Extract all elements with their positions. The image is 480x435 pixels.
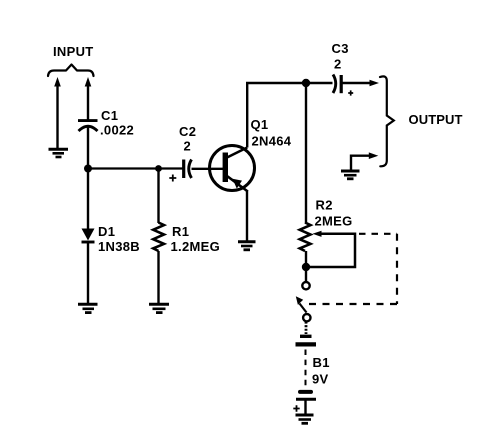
wire C1 to node A [87, 127, 89, 169]
battery B1 top cell [296, 336, 317, 344]
wire battery to ground [304, 399, 306, 414]
svg-text:2: 2 [334, 57, 341, 72]
output top arrow [370, 80, 380, 87]
wire Q1 emitter down [246, 191, 248, 241]
ground (input) [49, 149, 69, 157]
svg-text:2N464: 2N464 [252, 134, 292, 149]
svg-text:9V: 9V [312, 372, 329, 387]
wire node B to R1 [157, 169, 159, 224]
input brace (overbrace) [48, 65, 94, 77]
svg-text:R2: R2 [316, 198, 333, 213]
wire node C to C3 [306, 82, 333, 84]
svg-text:2: 2 [184, 139, 191, 154]
svg-text:D1: D1 [98, 224, 115, 239]
svg-text:C1: C1 [101, 108, 118, 123]
input left terminal arrow [54, 77, 61, 87]
dashed gang link horizontal to switch [307, 303, 397, 305]
wire R1 to ground [157, 251, 159, 304]
wire node C to R2 [305, 83, 307, 223]
wire wiper loop [308, 234, 355, 267]
svg-text:R1: R1 [172, 224, 189, 239]
C3 plus sign [348, 90, 353, 95]
wire Q1 collector up [247, 83, 306, 148]
capacitor C2 [184, 160, 192, 179]
svg-text:2MEG: 2MEG [315, 214, 353, 229]
wire R2 to node D [305, 251, 307, 267]
ground (Q1 emitter) [238, 242, 256, 250]
ground (D1) [78, 304, 98, 312]
node A junction dot [84, 165, 92, 173]
wire C2 to Q1 base [192, 168, 224, 170]
wire input right terminal to C1 [87, 84, 89, 120]
diode D1 [82, 229, 95, 243]
wire node A to C2 [88, 167, 183, 169]
capacitor C3 [333, 75, 341, 94]
svg-text:B1: B1 [313, 355, 330, 370]
svg-text:OUTPUT: OUTPUT [409, 112, 463, 127]
battery B1 dashed middle [305, 350, 307, 389]
dashed gang link horizontal from wiper [359, 233, 397, 235]
svg-text:1N38B: 1N38B [98, 239, 140, 254]
transistor Q1 [210, 146, 255, 192]
dashed gang link vertical [396, 234, 398, 304]
C2 plus sign [169, 175, 176, 182]
node C junction dot [302, 79, 310, 87]
R2 wiper arrow [313, 231, 322, 237]
ground (R1) [149, 304, 169, 312]
svg-text:.0022: .0022 [100, 123, 134, 138]
wire output ground arm [351, 156, 371, 170]
battery plus sign [293, 405, 299, 411]
battery B1 bottom cell [296, 392, 316, 399]
wire switch to battery (textured) [305, 322, 308, 335]
capacitor C1 [78, 121, 98, 131]
wire C3 to output arrow [341, 82, 371, 84]
output brace [380, 76, 394, 166]
ground (battery) [296, 415, 314, 423]
svg-text:1.2MEG: 1.2MEG [171, 239, 220, 254]
switch S1 lower contact [303, 314, 310, 321]
switch S1 blade [300, 304, 307, 313]
node D junction dot [302, 263, 310, 271]
wire node D to switch [305, 267, 307, 282]
resistor R1 [153, 223, 164, 252]
switch S1 upper contact [302, 282, 309, 289]
svg-text:C2: C2 [179, 124, 196, 139]
svg-text:C3: C3 [332, 41, 349, 56]
input right terminal arrow [85, 77, 92, 87]
wire node A to D1 [87, 169, 89, 230]
wire D1 to ground [87, 243, 89, 304]
resistor R2 (rheostat) [300, 223, 311, 252]
node B junction dot [155, 165, 162, 172]
svg-text:Q1: Q1 [251, 117, 269, 132]
svg-text:INPUT: INPUT [53, 44, 94, 59]
switch S1 blade arrow [296, 296, 303, 305]
wire input left terminal [56, 84, 58, 148]
ground (output) [341, 171, 360, 179]
output bottom arrow [369, 152, 379, 159]
